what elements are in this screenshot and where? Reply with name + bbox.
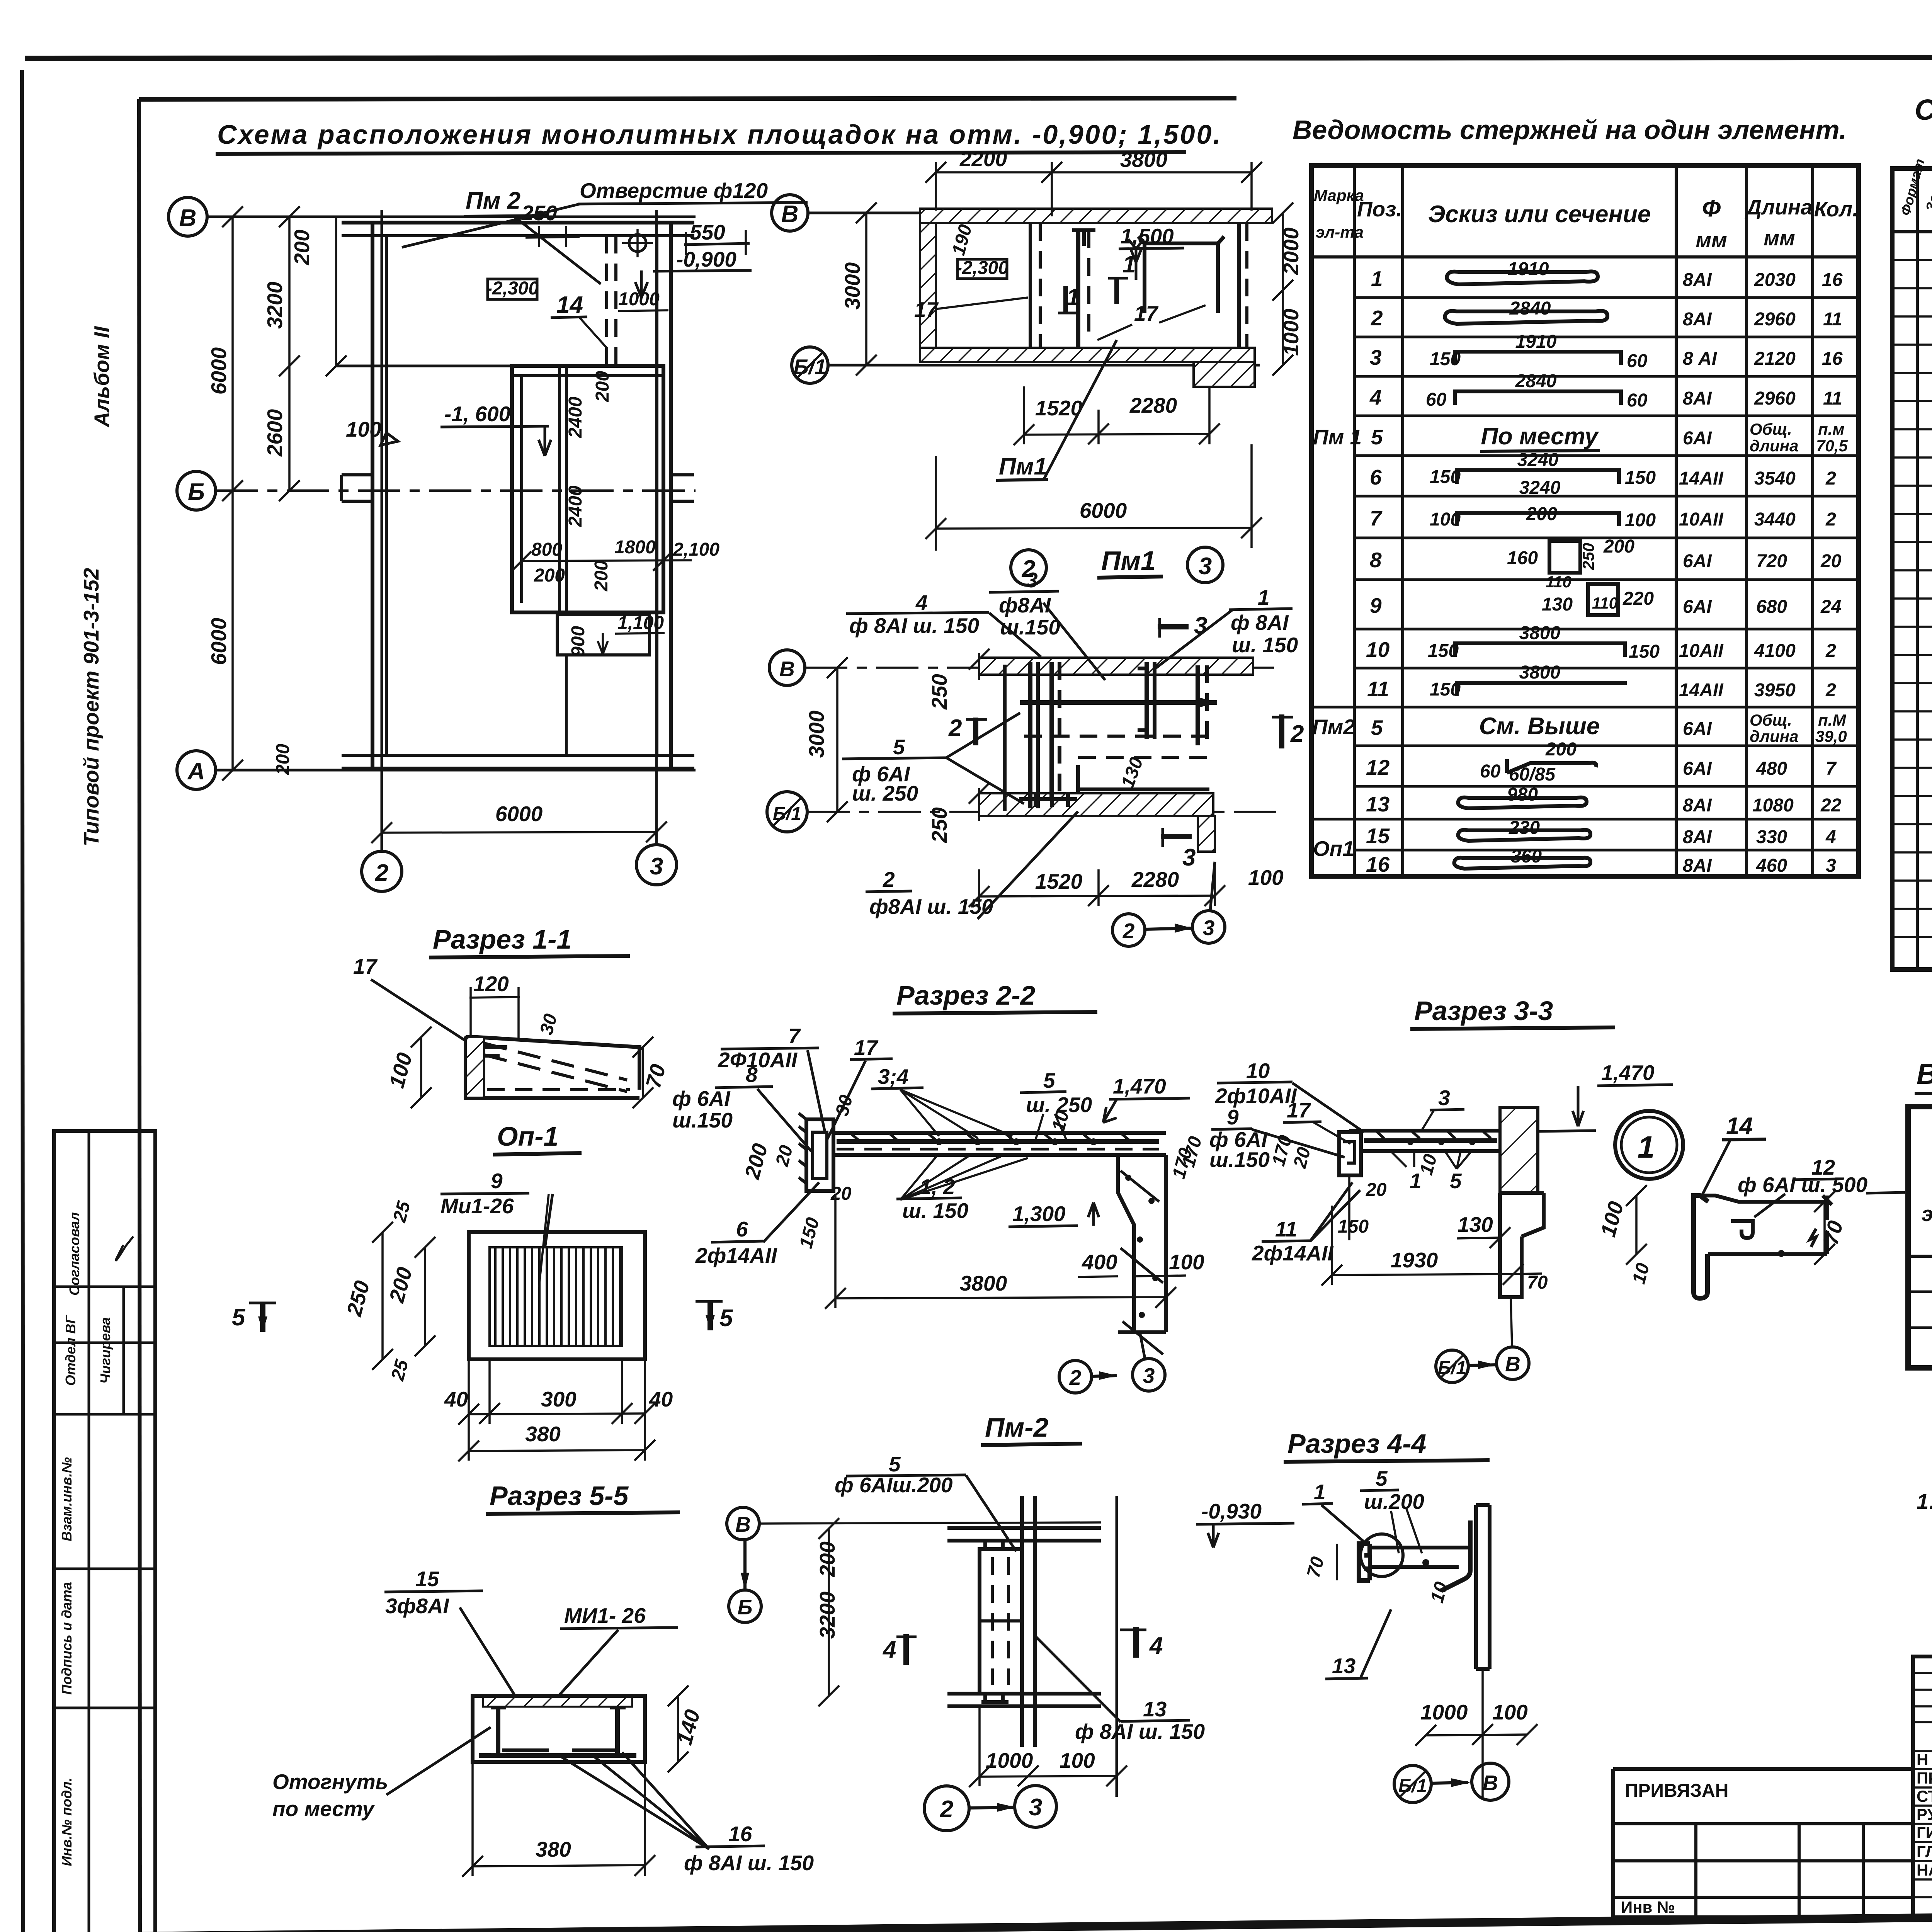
svg-text:Зона: Зона [1922, 177, 1932, 214]
svg-text:2: 2 [948, 715, 962, 742]
svg-text:Длина: Длина [1745, 195, 1812, 219]
grid circle 2 [362, 851, 402, 891]
svg-text:длина: длина [1750, 437, 1798, 455]
svg-text:В: В [1483, 1771, 1498, 1795]
svg-text:3540: 3540 [1754, 468, 1796, 489]
svg-text:30: 30 [832, 1093, 857, 1118]
frame inner top line [139, 98, 1236, 99]
svg-text:2ф14АII: 2ф14АII [695, 1243, 777, 1267]
dim 900 rotated [568, 626, 588, 657]
dim 100 near wall [346, 417, 398, 445]
svg-text:Чигирева: Чигирева [97, 1317, 113, 1384]
section 5-5 label 15 [384, 1567, 518, 1700]
section 2-2 elevation 1,300 [1009, 1202, 1099, 1227]
svg-text:1,300: 1,300 [1012, 1202, 1066, 1226]
dim 200 bottom left rotated [273, 744, 293, 775]
vyborka header texts [1922, 1109, 1932, 1254]
svg-text:1910: 1910 [1508, 259, 1549, 279]
label 14 [551, 292, 607, 348]
svg-text:мм: мм [1696, 228, 1727, 252]
svg-text:150: 150 [1430, 679, 1461, 700]
Pm1 section mark 3 bottom [1161, 828, 1196, 871]
svg-text:Разрез 5-5: Разрез 5-5 [490, 1481, 629, 1511]
svg-text:2280: 2280 [1129, 393, 1177, 417]
svg-text:Подпись и дата: Подпись и дата [59, 1582, 75, 1695]
Pm1 top slab hatched [979, 658, 1253, 675]
vedomost header texts [1314, 186, 1858, 252]
dim line across pit [512, 551, 692, 571]
svg-text:Отдел ВГ: Отдел ВГ [63, 1315, 78, 1386]
svg-text:130: 130 [1542, 594, 1573, 615]
dim 2400 rotated lower [565, 485, 586, 527]
svg-text:150: 150 [1430, 467, 1461, 487]
svg-text:-0,900: -0,900 [676, 247, 736, 271]
interior pit walls [512, 366, 663, 755]
svg-text:ф 8АI: ф 8АI [1231, 611, 1289, 634]
label Pm2 with underline [464, 187, 601, 284]
svg-text:2200: 2200 [959, 147, 1007, 171]
svg-text:Альбом II: Альбом II [90, 326, 114, 428]
svg-text:ф 6АIш.200: ф 6АIш.200 [835, 1473, 953, 1497]
svg-text:14АII: 14АII [1679, 468, 1724, 489]
section 3-3 dim 1930 [1321, 1206, 1524, 1286]
svg-text:11: 11 [1823, 309, 1842, 330]
svg-text:1: 1 [1122, 251, 1136, 278]
svg-text:ГЛ СПЕЦ: ГЛ СПЕЦ [1917, 1842, 1932, 1861]
svg-text:ш.150: ш.150 [672, 1108, 733, 1132]
svg-text:2: 2 [1825, 680, 1836, 701]
svg-text:мм: мм [1764, 226, 1795, 250]
svg-text:Ведомость стержней на один эле: Ведомость стержней на один элемент. [1293, 115, 1847, 145]
svg-text:70,5: 70,5 [1816, 437, 1848, 455]
vedomost table frame [1311, 165, 1859, 876]
svg-text:3000: 3000 [804, 710, 828, 758]
wall stub at B left [342, 475, 372, 501]
svg-text:ф 8АI ш. 150: ф 8АI ш. 150 [1075, 1719, 1205, 1743]
svg-text:1000: 1000 [986, 1748, 1033, 1772]
svg-text:60: 60 [1627, 390, 1648, 411]
Pm1 section mark 2 right [1272, 714, 1304, 748]
svg-text:1: 1 [1314, 1480, 1326, 1504]
label 17 left [914, 298, 1028, 321]
section 2-2 label 17 [827, 1036, 893, 1140]
svg-text:70: 70 [1303, 1554, 1328, 1580]
upper plan grid line B1 [828, 364, 1260, 367]
spec title [1915, 94, 1932, 161]
svg-text:70: 70 [1527, 1272, 1548, 1293]
Op-1 plate [469, 1194, 645, 1359]
Pm1 label 1 f8AI sh150 [1155, 585, 1298, 668]
Pm1 rebar dashed horizontals [1024, 736, 1207, 757]
svg-text:Оп-1: Оп-1 [497, 1121, 558, 1151]
svg-text:Пм2: Пм2 [1312, 715, 1355, 739]
svg-text:190: 190 [948, 222, 976, 257]
Pm1 section mark 2 left [948, 715, 987, 745]
Pm-2 grid circles V B [727, 1507, 761, 1622]
node element channel [1694, 1196, 1832, 1298]
svg-text:2960: 2960 [1754, 388, 1796, 409]
Pm1 bottom circles 2 3 [1112, 862, 1225, 946]
svg-text:4: 4 [1369, 385, 1382, 409]
Pm1 grid line B1 [807, 811, 1279, 813]
svg-text:5: 5 [889, 1452, 901, 1476]
svg-text:200: 200 [1526, 504, 1557, 524]
section 5-5 label 16 [560, 1752, 814, 1875]
svg-text:11: 11 [1275, 1217, 1297, 1241]
section 2-2 title [893, 980, 1097, 1014]
section 2-2 dim 3800 [825, 1194, 1176, 1309]
svg-text:3000: 3000 [840, 262, 864, 310]
section 2-2 label 3;4 [871, 1065, 1012, 1138]
section 2-2 label 7 [718, 1024, 825, 1132]
upper plan dim 6000 [925, 444, 1262, 551]
svg-text:-1, 600: -1, 600 [444, 402, 511, 426]
svg-text:3: 3 [1438, 1086, 1450, 1110]
svg-text:2: 2 [940, 1796, 953, 1823]
svg-text:3800: 3800 [1519, 623, 1561, 643]
grid line A [216, 769, 696, 772]
svg-text:17: 17 [1287, 1098, 1311, 1122]
section mark 5 right [696, 1301, 733, 1332]
svg-text:16: 16 [1822, 270, 1843, 290]
svg-text:3: 3 [1029, 1794, 1042, 1821]
upper plan embed element Pm1 [1072, 230, 1095, 348]
svg-text:200: 200 [273, 744, 293, 775]
svg-text:8: 8 [1370, 548, 1382, 572]
Pm1 bottom dim line [969, 862, 1284, 907]
section 4-4 title [1284, 1429, 1490, 1462]
section 3-3 slab [1349, 1131, 1515, 1151]
svg-text:9: 9 [1227, 1105, 1239, 1129]
section 4-4 circles B1 V [1394, 1763, 1509, 1803]
svg-text:24: 24 [1820, 597, 1841, 617]
svg-text:5: 5 [1043, 1068, 1056, 1092]
title Schema raspolozheniya [216, 119, 1222, 154]
svg-text:150: 150 [796, 1215, 823, 1250]
svg-text:по месту: по месту [272, 1797, 375, 1821]
svg-text:ш. 150: ш. 150 [1232, 633, 1298, 657]
svg-text:40: 40 [444, 1387, 468, 1411]
dim line 6000 bottom [371, 802, 667, 843]
svg-text:2,100: 2,100 [673, 539, 719, 560]
svg-text:Кол.: Кол. [1814, 197, 1859, 221]
svg-text:17: 17 [854, 1036, 879, 1060]
svg-text:В: В [179, 205, 197, 231]
Pm1 section mark 3 top [1158, 612, 1207, 639]
svg-text:6000: 6000 [207, 347, 231, 395]
svg-text:100: 100 [1169, 1250, 1204, 1274]
svg-text:ш.150: ш.150 [1000, 615, 1060, 639]
svg-text:16: 16 [728, 1822, 752, 1846]
svg-text:6000: 6000 [495, 802, 543, 826]
svg-text:2600: 2600 [263, 409, 287, 457]
svg-text:В: В [779, 657, 795, 681]
svg-text:3: 3 [1026, 568, 1038, 592]
Pm1 right bars [1138, 662, 1207, 745]
svg-text:150: 150 [1428, 641, 1459, 661]
svg-text:Отверстие ф120: Отверстие ф120 [580, 179, 768, 202]
svg-text:Б: Б [738, 1595, 753, 1619]
svg-text:150: 150 [1625, 468, 1656, 488]
svg-text:400: 400 [1082, 1250, 1117, 1274]
svg-text:15: 15 [1366, 824, 1390, 848]
plan outer walls [342, 223, 694, 769]
section 1-1 dim 120 [469, 972, 520, 1039]
svg-text:550: 550 [690, 220, 725, 244]
section 3-3 label 17 [1283, 1098, 1350, 1144]
section 5-5 dim 140 [668, 1685, 705, 1772]
svg-text:1: 1 [1638, 1130, 1655, 1164]
svg-text:15: 15 [415, 1567, 440, 1591]
svg-text:10АII: 10АII [1679, 641, 1724, 661]
frame bottom thick line [60, 1909, 1932, 1932]
svg-text:20: 20 [1820, 551, 1842, 571]
svg-text:16: 16 [1366, 852, 1390, 876]
label 17 right [1097, 301, 1206, 340]
section 2-2 circles 2 3 [1059, 1332, 1165, 1393]
upper plan circle 3 [1187, 547, 1223, 583]
svg-text:ф 6АI ш. 500: ф 6АI ш. 500 [1738, 1173, 1867, 1197]
section 4-4 dim 1000 100 [1415, 1669, 1537, 1797]
svg-text:5: 5 [232, 1304, 246, 1331]
svg-text:Ф: Ф [1702, 195, 1721, 222]
svg-text:Б/1: Б/1 [794, 355, 827, 379]
section 3-3 dims left [1178, 1133, 1387, 1240]
svg-text:ш.150: ш.150 [1209, 1148, 1270, 1172]
svg-text:3: 3 [650, 853, 663, 880]
svg-text:Пм 2: Пм 2 [466, 187, 520, 214]
svg-text:2960: 2960 [1754, 309, 1796, 330]
elevation -1,600 with arrow [440, 402, 551, 456]
svg-text:ш. 250: ш. 250 [852, 781, 918, 805]
svg-text:2Ф10АII: 2Ф10АII [718, 1048, 798, 1072]
svg-text:13: 13 [1332, 1654, 1355, 1678]
svg-text:1. Закладные изделия заложит: 1. Закладные изделия заложить до бетонир… [1917, 1489, 1932, 1514]
node label 14 [1702, 1113, 1766, 1196]
section 2-2 label 1,2 sh150 [896, 1153, 1028, 1223]
Pm-2 element plate [980, 1541, 1022, 1702]
svg-text:2840: 2840 [1509, 298, 1551, 319]
svg-text:3950: 3950 [1754, 680, 1796, 701]
svg-text:70: 70 [641, 1061, 670, 1091]
svg-text:2120: 2120 [1754, 349, 1796, 369]
svg-text:60: 60 [1480, 761, 1501, 782]
grid circle A [177, 751, 216, 789]
svg-text:100: 100 [346, 417, 381, 441]
svg-text:2: 2 [1290, 721, 1304, 747]
svg-text:3: 3 [1199, 553, 1212, 580]
svg-text:250: 250 [1579, 543, 1597, 570]
section 3-3 left embed [1339, 1132, 1361, 1175]
section 2-2 dims around slab [740, 1093, 1196, 1250]
svg-text:20: 20 [772, 1143, 797, 1169]
svg-text:60/85: 60/85 [1509, 764, 1556, 785]
svg-text:Отогнуть: Отогнуть [272, 1770, 388, 1794]
svg-text:200: 200 [534, 565, 565, 586]
svg-text:1: 1 [1258, 585, 1270, 609]
vyborka title [1915, 1058, 1932, 1094]
Pm-2 grid line V [760, 1522, 1101, 1524]
dim 250 top [521, 201, 580, 247]
svg-text:4100: 4100 [1754, 641, 1796, 661]
grid column line 2 [381, 210, 383, 850]
svg-text:9: 9 [491, 1169, 503, 1193]
svg-text:6АI: 6АI [1683, 759, 1712, 779]
svg-text:200: 200 [1545, 739, 1577, 760]
svg-text:200: 200 [384, 1264, 417, 1305]
svg-text:ш.200: ш.200 [1364, 1490, 1424, 1514]
svg-text:100: 100 [1430, 509, 1461, 530]
svg-text:В: В [781, 201, 799, 228]
svg-text:230: 230 [1509, 818, 1540, 838]
upper plan left wall hatched [920, 223, 936, 348]
svg-text:170: 170 [1178, 1134, 1206, 1169]
svg-text:460: 460 [1756, 855, 1787, 876]
svg-text:8АI: 8АI [1683, 270, 1712, 290]
upper plan right step hatched [1194, 362, 1255, 387]
node dims [1596, 1185, 1848, 1286]
svg-text:680: 680 [1756, 597, 1787, 617]
svg-text:8АI: 8АI [1683, 827, 1712, 847]
Pm-2 bottom slab [947, 1694, 1101, 1706]
svg-text:250: 250 [927, 674, 951, 710]
svg-text:17: 17 [1134, 301, 1159, 325]
svg-text:20: 20 [830, 1184, 852, 1204]
svg-text:ПРИВЯЗАН: ПРИВЯЗАН [1625, 1781, 1728, 1801]
svg-text:8АI: 8АI [1683, 388, 1712, 409]
svg-text:ПРОВЕР: ПРОВЕР [1917, 1769, 1932, 1787]
svg-text:В: В [1505, 1352, 1520, 1376]
section 2-2 left embed [799, 1113, 833, 1191]
svg-text:100: 100 [384, 1050, 417, 1090]
svg-text:3: 3 [1143, 1364, 1155, 1388]
svg-text:Схема расположения монолитных: Схема расположения монолитных площадок н… [217, 119, 1222, 150]
svg-text:5: 5 [1371, 425, 1383, 449]
svg-text:3: 3 [1826, 855, 1836, 876]
svg-text:Ми1-26: Ми1-26 [440, 1194, 514, 1218]
svg-text:2: 2 [1371, 306, 1383, 330]
svg-text:11: 11 [1823, 388, 1842, 409]
svg-text:100: 100 [1625, 510, 1656, 531]
svg-text:200: 200 [740, 1141, 772, 1182]
svg-text:130: 130 [1117, 755, 1147, 791]
upper plan bottom wall hatched [920, 348, 1255, 362]
svg-text:360: 360 [1511, 846, 1542, 867]
svg-text:3200: 3200 [263, 281, 287, 329]
svg-text:ф8АI ш. 150: ф8АI ш. 150 [869, 895, 993, 918]
svg-text:4: 4 [882, 1636, 896, 1663]
dim 1800 [614, 537, 656, 558]
svg-text:3440: 3440 [1754, 509, 1796, 530]
Pm-2 label 5 [835, 1452, 1016, 1551]
dim 200 below 800 [534, 565, 565, 586]
Pm1 dim 250 upper [927, 649, 990, 710]
svg-text:РУК.ГР.: РУК.ГР. [1917, 1805, 1932, 1823]
svg-text:5: 5 [1371, 716, 1383, 740]
svg-text:эл-та: эл-та [1316, 223, 1364, 241]
svg-text:Общ.: Общ. [1750, 420, 1792, 438]
svg-text:6АI: 6АI [1683, 428, 1712, 449]
Pm-2 circles 2 3 [924, 1786, 1056, 1831]
section 3-3 labels 1 10 5 [1391, 1150, 1472, 1193]
section 3-3 wall hatched [1500, 1107, 1544, 1297]
svg-text:30: 30 [536, 1012, 561, 1037]
node label 12 [1738, 1155, 1905, 1217]
svg-text:-2,300: -2,300 [486, 278, 539, 299]
svg-text:17: 17 [914, 298, 939, 321]
Pm1 label 2 f8AI sh150 bottom [866, 811, 1078, 919]
svg-text:3ф8АI: 3ф8АI [385, 1594, 450, 1618]
dim 550 [684, 220, 750, 255]
section 1-1 dim 70 [633, 1037, 670, 1108]
section 3-3 elevation 1,470 [1538, 1061, 1673, 1131]
Pm-2 top slab [947, 1528, 1101, 1541]
svg-text:120: 120 [473, 972, 509, 996]
Pm1 label 3 f8AI sh150 [989, 568, 1105, 680]
page top border [25, 57, 1932, 58]
svg-text:Общ.: Общ. [1750, 711, 1792, 729]
svg-text:39,0: 39,0 [1815, 727, 1847, 745]
svg-text:1000: 1000 [1279, 308, 1303, 356]
partition upper dashed [607, 236, 616, 366]
Op-1 dims bottom [444, 1359, 673, 1461]
svg-text:3240: 3240 [1517, 450, 1559, 470]
svg-text:Спецификация элементов к монол: Спецификация элементов к монолитным площ… [1915, 94, 1932, 126]
Op-1 title [493, 1121, 582, 1155]
section 2-2 elevation 1,470 [1103, 1074, 1190, 1122]
svg-text:10АII: 10АII [1679, 509, 1724, 530]
svg-text:элемента: элемента [1922, 1202, 1932, 1226]
Pm-2 dim 1000 100 [969, 1708, 1127, 1787]
section 2-2 label 5 sh250 [1020, 1068, 1092, 1140]
svg-text:100: 100 [1248, 866, 1284, 889]
node circle 1 [1615, 1111, 1683, 1179]
svg-text:1520: 1520 [1035, 869, 1083, 893]
svg-text:См. Выше: См. Выше [1479, 713, 1600, 740]
label Pm1 upper plan [996, 340, 1117, 480]
svg-text:3200: 3200 [815, 1591, 839, 1639]
svg-text:900: 900 [568, 626, 588, 657]
section 2-2 right column [1118, 1155, 1166, 1354]
rotated text Album II [90, 326, 114, 428]
svg-text:6: 6 [736, 1217, 748, 1241]
Pm1 detail grid circle B1 [767, 792, 807, 832]
upper plan grid circle V [772, 195, 808, 231]
spec table frame [1892, 168, 1932, 969]
svg-text:6: 6 [1370, 465, 1382, 489]
svg-text:Типовой проект 901-3-152: Типовой проект 901-3-152 [79, 568, 103, 846]
section 3-3 label 10 [1215, 1059, 1364, 1132]
svg-text:ф 8АI ш. 150: ф 8АI ш. 150 [684, 1851, 814, 1875]
svg-text:330: 330 [1756, 827, 1787, 847]
dim 200 rotated upper [592, 371, 613, 402]
svg-text:ф 8АI ш. 150: ф 8АI ш. 150 [849, 614, 979, 638]
paper left edge line [22, 70, 23, 1932]
svg-text:Марка: Марка [1314, 186, 1364, 204]
svg-text:6000: 6000 [207, 617, 231, 665]
svg-text:Эскиз или сечение: Эскиз или сечение [1428, 201, 1651, 228]
svg-text:200: 200 [591, 560, 612, 592]
svg-text:2: 2 [1825, 468, 1836, 489]
svg-text:2ф10АII: 2ф10АII [1215, 1084, 1297, 1108]
svg-text:14: 14 [1726, 1113, 1753, 1139]
svg-text:Инв №: Инв № [1621, 1898, 1675, 1916]
Op-1 label 9 Mi1-26 [440, 1169, 553, 1275]
svg-text:3800: 3800 [1120, 148, 1168, 172]
svg-text:720: 720 [1756, 551, 1787, 571]
upper plan inner element right [1138, 236, 1224, 313]
Pm1 bottom hooks [1019, 792, 1077, 807]
